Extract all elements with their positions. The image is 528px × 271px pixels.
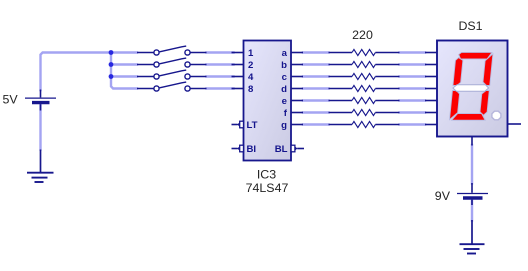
DS1 pin e lead (425, 100, 437, 102)
wire resistor b to display (400, 63, 426, 65)
DS1 pin g lead (425, 124, 437, 126)
wire resistor a to display (400, 51, 426, 53)
wire 5V battery to ground (39, 104, 41, 150)
wire IC b to resistor (303, 63, 329, 65)
IC3 pin e lead (291, 100, 303, 102)
wire bus to switch row 1 (111, 51, 137, 53)
switch J1 (137, 46, 207, 55)
segment c lit (480, 91, 490, 116)
IC3 pin d lead (291, 88, 303, 90)
segment f lit (453, 58, 463, 86)
wire IC d to resistor (303, 87, 329, 89)
svg-text:2: 2 (248, 60, 253, 71)
IC3 pin f lead (291, 112, 303, 114)
DS1 pin a lead (425, 52, 437, 54)
switch J3 (137, 70, 207, 79)
wire switch 3 to IC pin 4 (207, 75, 234, 77)
IC3 pin g lead (291, 124, 303, 126)
svg-text:d: d (281, 84, 287, 95)
DS1 pin common lead bottom (471, 137, 473, 146)
DS1 seven segment digit 0 (449, 52, 493, 120)
DS1 pin f lead (425, 112, 437, 114)
IC3 pin LT lead with active-low square bubble (232, 121, 244, 128)
svg-text:c: c (282, 72, 288, 83)
resistor R2 row b (329, 61, 400, 67)
IC3 pin a lead (291, 52, 303, 54)
svg-text:5V: 5V (3, 92, 19, 106)
resistor R6 row f (329, 109, 400, 115)
svg-text:a: a (282, 48, 288, 59)
segment g unlit (453, 85, 489, 92)
svg-text:g: g (281, 120, 287, 131)
DS1 decimal point unlit (492, 111, 501, 120)
battery V2 9V (457, 183, 488, 205)
IC3 pin BL lead with active-low square bubble (291, 145, 304, 152)
wire IC e to resistor (303, 99, 329, 101)
display DS1 box (437, 41, 508, 137)
svg-text:DS1: DS1 (458, 19, 482, 33)
wire resistor f to display (400, 111, 426, 113)
resistor R3 row c (329, 73, 400, 79)
wire display common to 9V battery (471, 145, 473, 184)
svg-text:74LS47: 74LS47 (246, 181, 289, 195)
svg-text:220: 220 (352, 28, 373, 42)
wire bus vertical with bend to switch row 4 (111, 53, 137, 89)
DS1 pin c lead (425, 76, 437, 78)
DS1 pin d lead (425, 88, 437, 90)
wire IC g to resistor (303, 123, 329, 125)
IC3 pin 8 lead (232, 88, 244, 90)
IC3 pin BI lead with active-low square bubble (232, 145, 244, 152)
IC3 pin c lead (291, 76, 303, 78)
IC3 pin 1 lead (232, 52, 244, 54)
DS1 pin b lead (425, 64, 437, 66)
switch J2 (137, 58, 207, 67)
switch J4 (137, 82, 207, 91)
op IC3 74LS47 box (244, 41, 292, 161)
svg-text:8: 8 (248, 84, 254, 95)
svg-text:LT: LT (247, 120, 258, 131)
ground GND2 (460, 220, 485, 254)
resistor R7 row g (329, 121, 400, 127)
wire IC f to resistor (303, 111, 329, 113)
wire resistor d to display (400, 87, 426, 89)
svg-text:b: b (281, 60, 287, 71)
resistor R1 220 row a (329, 49, 400, 55)
resistor R5 row e (329, 97, 400, 103)
svg-text:BL: BL (275, 144, 288, 155)
svg-text:9V: 9V (435, 189, 451, 203)
wire bus to switch row 3 (111, 75, 137, 77)
wire 5V battery to bus top (41, 53, 112, 91)
IC3 pin 2 lead (232, 64, 244, 66)
segment e lit (450, 91, 460, 120)
svg-text:e: e (282, 96, 287, 107)
wire 9V battery to ground (471, 200, 473, 221)
segment a lit (458, 52, 492, 59)
svg-text:IC3: IC3 (257, 168, 276, 182)
DS1 pin dp lead right (508, 123, 522, 125)
IC3 pin 4 lead (232, 76, 244, 78)
node junction dot 1 (109, 50, 114, 55)
wire switch 2 to IC pin 2 (207, 63, 234, 65)
wire IC c to resistor (303, 75, 329, 77)
wire switch 1 to IC pin 1 (207, 51, 234, 53)
node junction dot 3 (109, 74, 114, 79)
wire resistor c to display (400, 75, 426, 77)
wire bus to switch row 2 (111, 63, 137, 65)
svg-text:4: 4 (248, 72, 254, 83)
node junction dot 2 (109, 62, 114, 67)
svg-text:BI: BI (247, 144, 257, 155)
IC3 pin b lead (291, 64, 303, 66)
resistor R4 row d (329, 85, 400, 91)
wire IC a to resistor (303, 51, 329, 53)
wire switch 4 to IC pin 8 (207, 87, 234, 89)
ground GND1 (27, 150, 54, 183)
wire resistor e to display (400, 99, 426, 101)
segment d lit (452, 114, 486, 121)
battery V1 5V (25, 90, 56, 111)
segment b lit (483, 54, 493, 86)
wire resistor g to display (400, 123, 426, 125)
svg-text:1: 1 (248, 48, 254, 59)
